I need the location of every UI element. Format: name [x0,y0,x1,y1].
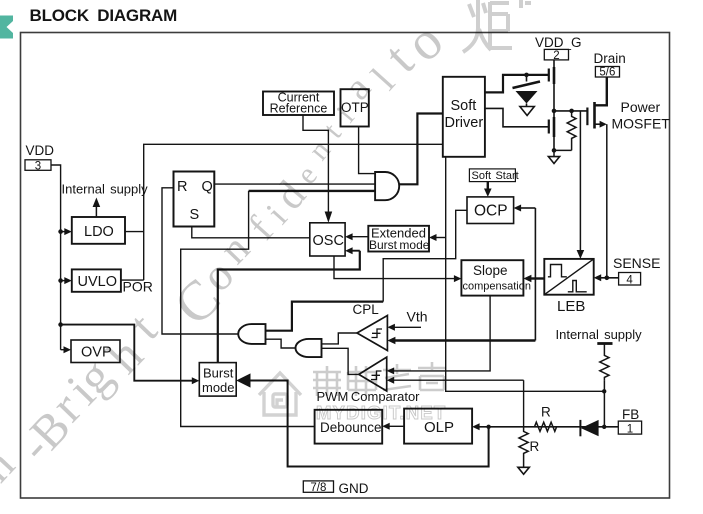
node dot zener tap [524,73,529,78]
node dot pullup-softdriver [602,389,606,393]
block Soft Driver [443,77,485,157]
wire debounce feedback riser [181,191,315,427]
node dot rail-UVLO [58,278,63,283]
wire Vth input arrow [394,326,421,328]
ground (under zener) [520,107,534,116]
wire gate node rail [554,110,587,112]
pin box 1 (FB) [618,421,641,434]
node dot rail-LDO [58,229,63,234]
svg-text:Driver: Driver [445,115,484,131]
svg-text:OCP: OCP [474,203,508,220]
wire gate rail to LEB [579,111,581,252]
wire PWM comparator output to AND2 [322,348,359,374]
node dot sense [605,276,610,281]
diode D2 [581,420,599,436]
wire sense vertical to comparator [534,208,536,341]
wire soft start to OCP arrow [487,182,489,191]
svg-text:S: S [190,207,200,223]
transistor Q1 (upper driver MOSFET) [553,60,555,67]
svg-text:MYDIGIT.NET: MYDIGIT.NET [316,402,446,423]
svg-text:SENSE: SENSE [613,255,660,271]
svg-text:GND: GND [339,481,369,496]
svg-text:Slope: Slope [473,263,508,278]
AND gate U6 (left-pointing, comparator combine) [296,339,322,357]
arrow internal supply up from LDO [95,204,97,217]
wire OTP to AND3 [359,127,376,174]
wire rail to Burst mode [61,325,192,381]
watermark diagonal text "on-Bright Confidential to 炬" [0,10,454,509]
pin box 2 (VDD_G) [544,49,568,60]
wire S input [192,227,310,238]
node dot pullup-FB [602,425,606,429]
wire OCP output to AND1 [383,210,467,301]
svg-text:Burst: Burst [203,366,234,381]
pin box 7/8 (GND) [303,481,333,492]
resistor R1 (gate pulldown) [567,111,576,150]
svg-text:OSC: OSC [313,233,344,249]
wire LDO output stub [125,231,144,233]
wire soft driver upper gate out [485,75,549,93]
resistor R4 to ground [519,427,528,468]
wire OSC ramp to slope comp [334,256,455,279]
svg-text:R: R [177,179,187,195]
flip-flop U1 R/S latch [174,172,215,227]
block UVLO [72,269,121,291]
svg-text:FB: FB [622,407,639,422]
supply bar [597,342,612,345]
AND gate U3 (drive enable) [375,172,399,200]
wire LDO/POR riser [144,144,443,280]
svg-text:Burst mode: Burst mode [369,238,430,252]
svg-text:compensation: compensation [463,281,532,293]
wire current sense to CPL comparator (thick) [395,339,536,341]
node dot source [552,148,557,153]
AND gate U7 (left-pointing, to FF reset) [238,324,265,344]
pin box 5/6 (Drain) [595,67,619,78]
pin box 3 (VDD) [25,160,51,171]
block OCP [467,197,514,224]
wire soft driver bottom sense line [446,157,605,391]
wire rail to LDO with arrow [61,231,65,233]
svg-text:7/8: 7/8 [310,482,326,494]
title teal ribbon [0,16,13,39]
svg-text:LDO: LDO [84,224,114,240]
svg-text:POR: POR [123,279,153,295]
svg-text:Soft: Soft [451,98,477,114]
wire FB line into OLP arrow [479,426,618,428]
svg-text:1: 1 [627,423,633,435]
wire soft driver sense to extended burst arrow [436,237,446,239]
svg-text:Power: Power [621,99,661,115]
svg-text:Drain: Drain [594,51,626,66]
wire AND3 output to Soft Driver [399,114,443,185]
resistor R3 series [524,422,581,431]
block Debounce [315,410,383,444]
block Extended Burst mode [368,226,429,252]
transistor Q2 (lower driver MOSFET) [553,111,555,117]
node dot rail-burst [58,322,63,327]
svg-text:R: R [541,405,551,420]
wire sense to OCP arrow [520,207,536,209]
wire extended burst to OSC arrow [351,236,368,238]
wire VDD rail [51,165,61,350]
zener diode D1 [526,75,528,82]
node dot resistor top [569,109,574,114]
svg-text:BLOCK DIAGRAM: BLOCK DIAGRAM [30,6,178,25]
svg-text:R: R [530,439,540,454]
wire SENSE pin to LEB arrow [600,277,619,279]
wire R input [162,188,239,334]
block Slope compensation [461,260,523,295]
block OTP [341,89,369,126]
block LEB [544,259,593,295]
pin box 4 (SENSE) [619,273,641,286]
svg-text:CPL: CPL [353,302,380,317]
wire AND3 thick input [249,190,376,192]
wire FB loop into Burst mode (big arrow) [236,373,250,387]
resistor R2 pull-up [600,344,609,381]
svg-text:UVLO: UVLO [78,274,118,290]
block OVP [71,340,120,363]
svg-text:5/6: 5/6 [599,67,615,79]
svg-text:Q: Q [202,179,213,195]
wire FB to PWM comparator input [394,379,524,381]
transistor Q3 power MOSFET [593,102,596,129]
block LDO [72,217,125,244]
svg-text:mode: mode [202,380,235,395]
wire drain lead [595,77,607,105]
node dot OLP branch [486,425,490,429]
block Soft Start [469,169,515,182]
wire OLP to Debounce arrow [389,425,404,427]
svg-text:LEB: LEB [557,298,585,315]
svg-text:Internal supply: Internal supply [556,327,643,342]
comparator PWM U5 [359,357,387,391]
wire slope comp output to PWM comparator [394,296,490,371]
wire burst-OSC loop [218,251,360,363]
wire source node [554,149,572,151]
block Burst mode [199,363,236,397]
wire POR from UVLO [121,279,144,281]
wire rail to OVP with arrow [61,349,65,351]
watermark logo house + 数码之家 + MYDIGIT.NET [259,373,301,415]
svg-text:Internal supply: Internal supply [62,182,149,197]
wire soft driver lower gate out [485,108,549,126]
svg-text:Vth: Vth [407,309,428,325]
block OLP [404,409,472,444]
svg-text:Reference: Reference [270,102,328,116]
svg-text:Soft Start: Soft Start [472,170,519,182]
AND2 output to AND1 [266,339,297,348]
watermark Chinese char 炬 (approximated strokes) [463,0,531,52]
block Current Reference [263,92,334,116]
svg-text:VDD_G: VDD_G [535,35,582,50]
ground (driver source) [553,150,555,156]
wire Q output [214,183,375,185]
svg-text:MOSFET: MOSFET [612,116,671,132]
node dot driver mid [552,109,557,114]
wire current ref to OSC [303,115,328,216]
svg-text:3: 3 [35,160,41,172]
wire LEB output to slope comp (thick arrow) [530,277,544,279]
wire burst loop to OSC arrow [351,250,360,252]
svg-text:VDD: VDD [26,143,55,158]
svg-text:4: 4 [626,274,633,286]
ground (FB divider) [518,467,529,474]
block OSC [310,223,345,256]
wire rail to UVLO with arrow [61,280,65,282]
wire CPL output to AND2 [322,333,357,344]
